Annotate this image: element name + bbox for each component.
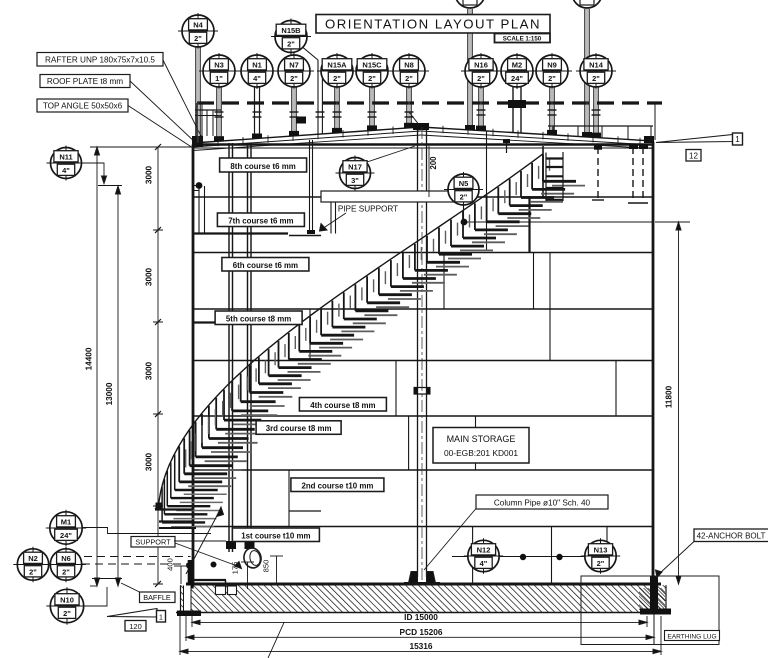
rafter chord left — [193, 135, 421, 151]
nozzle N8 2" — [389, 53, 429, 89]
dimension 11800 — [655, 222, 690, 584]
label 3rd course t8 mm — [256, 421, 341, 435]
svg-text:N15A: N15A — [327, 61, 347, 70]
svg-text:120: 120 — [129, 622, 142, 631]
label 1st course t10 mm — [232, 528, 319, 542]
dot on wall — [186, 562, 193, 569]
handrail post right — [654, 103, 656, 140]
svg-text:N9: N9 — [547, 61, 557, 70]
column base plates — [404, 572, 440, 584]
svg-text:2": 2" — [597, 559, 605, 568]
anchor bolt right assembly — [640, 576, 671, 645]
course boundary line 5/4 — [193, 360, 653, 362]
roof railing right — [548, 126, 653, 141]
nozzle pipe x=552 — [550, 87, 554, 135]
svg-text:2": 2" — [460, 193, 468, 202]
nozzle pipe x=481 — [479, 87, 483, 131]
internal dashed pipe 1 — [592, 145, 604, 200]
svg-text:N14: N14 — [589, 61, 604, 70]
stair treads — [162, 155, 585, 527]
shell plate seam — [475, 416, 477, 470]
svg-text:N3: N3 — [214, 61, 224, 70]
nozzle N6 2" — [46, 547, 85, 582]
stairway stringer — [159, 154, 543, 504]
stair top post — [542, 146, 544, 197]
dimension 13000 — [98, 186, 122, 587]
svg-text:7th course t6 mm: 7th course t6 mm — [228, 216, 293, 225]
N17 leader — [367, 146, 415, 162]
shell plate seam — [288, 470, 290, 527]
foundation ring wall — [176, 585, 670, 612]
course boundary line 2/1 — [193, 526, 653, 528]
svg-text:1: 1 — [735, 135, 740, 144]
nozzle pipe x=587 — [585, 9, 589, 137]
roof nozzle flanges — [214, 117, 601, 142]
nozzle pipe x=409 — [407, 87, 411, 128]
label EARTHING LUG — [665, 631, 720, 641]
bottom leader — [268, 623, 284, 658]
nozzle M2 24" — [497, 53, 537, 89]
dim 200 line — [428, 146, 430, 197]
label BAFFLE — [121, 583, 175, 603]
dimension 14400 — [85, 147, 194, 586]
svg-text:N4: N4 — [193, 21, 203, 30]
N6 dashed leader — [82, 563, 191, 565]
N8 pipe jog to peak — [409, 112, 420, 126]
svg-text:N8: N8 — [404, 61, 414, 70]
shell seam half line — [289, 510, 321, 512]
label RAFTER UNP 180x75x7x10.5 — [37, 53, 202, 139]
svg-text:PIPE SUPPORT: PIPE SUPPORT — [338, 205, 398, 214]
roof plate right slope — [421, 127, 653, 141]
internal ladder — [546, 152, 563, 201]
svg-text:N12: N12 — [477, 546, 491, 555]
dimension course line 3000s — [153, 144, 163, 587]
svg-text:200: 200 — [429, 156, 438, 170]
svg-text:42-ANCHOR BOLT: 42-ANCHOR BOLT — [697, 532, 766, 541]
svg-text:M1: M1 — [61, 518, 71, 527]
dimension ID 15000 — [192, 621, 647, 623]
svg-text:175: 175 — [231, 562, 240, 575]
N11 leader — [82, 163, 105, 182]
shell plate seam — [549, 253, 551, 361]
nozzle cut top 2 — [572, 0, 602, 8]
svg-text:1": 1" — [215, 74, 223, 83]
label SUPPORT — [131, 537, 242, 569]
nozzle N3 1" — [199, 53, 239, 89]
svg-text:2": 2" — [62, 568, 70, 577]
center column pipe — [414, 127, 431, 580]
svg-text:N15B: N15B — [281, 26, 301, 35]
svg-text:2": 2" — [29, 568, 37, 577]
label 4th course t8 mm — [299, 398, 386, 412]
stair support post — [528, 196, 530, 253]
shell plate seam — [606, 527, 608, 557]
svg-text:24": 24" — [511, 74, 523, 83]
svg-text:M2: M2 — [512, 61, 522, 70]
svg-text:N10: N10 — [60, 596, 74, 605]
N10 leader — [84, 587, 108, 606]
nozzle N15B 2" — [271, 19, 311, 55]
nozzle line N12 N13 — [452, 556, 585, 558]
svg-text:6th course t6 mm: 6th course t6 mm — [233, 261, 298, 270]
svg-text:ROOF PLATE t8 mm: ROOF PLATE t8 mm — [47, 77, 123, 86]
svg-text:2": 2" — [477, 74, 485, 83]
svg-text:13000: 13000 — [105, 382, 114, 405]
course boundary line 4/3 — [193, 415, 653, 417]
extension lines bottom — [180, 614, 661, 655]
N5 stem — [463, 205, 465, 219]
left eave cluster — [192, 110, 221, 147]
nozzle N12 4" — [464, 538, 503, 573]
svg-text:N16: N16 — [474, 61, 488, 70]
section flag 1 bottom left — [107, 609, 166, 623]
nozzle N5 2" — [444, 172, 483, 207]
internal pipe stub C — [307, 140, 315, 234]
nozzle N2 2" — [13, 547, 52, 582]
nozzle pipe x=596 — [594, 87, 598, 138]
dimension PCD 15206 — [186, 636, 654, 638]
nozzle N11 4" — [47, 146, 86, 181]
svg-text:3": 3" — [351, 176, 359, 185]
svg-text:EARTHING LUG: EARTHING LUG — [667, 634, 716, 641]
svg-text:2": 2" — [405, 74, 413, 83]
svg-text:RAFTER UNP 180x75x7x10.5: RAFTER UNP 180x75x7x10.5 — [45, 56, 155, 65]
pipe support posts — [331, 202, 336, 234]
shim plates — [216, 586, 237, 595]
svg-text:BAFFLE: BAFFLE — [143, 593, 171, 602]
label ROOF PLATE t8 mm — [40, 75, 197, 145]
nozzle N17 3" — [336, 156, 375, 191]
svg-text:24": 24" — [60, 531, 72, 540]
top angle ring — [193, 143, 653, 146]
tank left wall — [192, 145, 195, 585]
internal pipe pair A — [226, 143, 236, 552]
label 42-ANCHOR BOLT — [656, 529, 768, 578]
section flag 1 top right — [656, 133, 743, 145]
label 2nd course t10 mm — [291, 478, 384, 492]
nozzle pipe x=372 — [370, 87, 374, 130]
shell plate seam — [533, 253, 535, 310]
course boundary line 6/5 — [193, 308, 653, 310]
svg-text:2": 2" — [290, 74, 298, 83]
label 6th course t6 mm — [222, 258, 309, 272]
ground tick — [92, 578, 122, 580]
nozzle N7 2" — [274, 53, 314, 89]
svg-text:4": 4" — [62, 166, 70, 175]
overflow tick and dot — [193, 182, 202, 189]
svg-text:N7: N7 — [289, 61, 299, 70]
roof peak cap — [413, 123, 429, 130]
svg-text:2": 2" — [287, 40, 295, 49]
right pedestal dense hatch — [639, 588, 665, 610]
nozzle N15A 2" — [317, 53, 357, 89]
course boundary line 8/7 — [193, 196, 653, 198]
svg-text:SCALE 1:150: SCALE 1:150 — [503, 36, 542, 43]
shell plate seam — [408, 416, 410, 470]
detail box 120 — [125, 621, 146, 632]
nozzle N1 4" — [237, 53, 277, 89]
svg-text:850: 850 — [262, 560, 271, 573]
manhole M2 neck — [508, 87, 526, 133]
svg-text:MAIN STORAGE: MAIN STORAGE — [447, 434, 516, 444]
label 7th course t6 mm — [217, 213, 304, 227]
roof platform handrail dashed — [197, 101, 662, 104]
dot near support — [211, 562, 217, 568]
pipe support plan rect — [321, 191, 463, 202]
svg-text:12: 12 — [689, 152, 698, 161]
internal stub at 506 — [503, 139, 510, 153]
svg-text:3000: 3000 — [145, 452, 154, 471]
nozzle N14 2" — [576, 53, 616, 89]
svg-text:N1: N1 — [252, 61, 262, 70]
internal dashed pipe pair 2 — [628, 144, 648, 203]
left wall anchor bolt — [188, 560, 194, 589]
nozzle pipe N1 double — [255, 87, 260, 139]
nozzle cut top 1 — [455, 0, 485, 8]
svg-text:4": 4" — [253, 74, 261, 83]
dimension 15316 — [180, 650, 661, 652]
shell plate seam — [395, 361, 397, 417]
anchor detail box — [581, 576, 719, 645]
svg-text:3000: 3000 — [145, 165, 154, 184]
tank bottom plate — [186, 583, 661, 586]
dim 175 — [231, 562, 255, 589]
level dot N5 — [461, 219, 468, 226]
internal pipe pair B — [245, 143, 255, 552]
svg-text:4th course t8 mm: 4th course t8 mm — [310, 401, 375, 410]
dim 400 — [166, 558, 189, 584]
shell plate seam — [615, 361, 617, 417]
rafter right — [421, 131, 653, 145]
svg-text:2": 2" — [548, 74, 556, 83]
label 8th course t6 mm — [220, 158, 307, 172]
svg-text:4": 4" — [480, 559, 488, 568]
nozzle pipe x=294 — [292, 87, 296, 136]
right eave cluster — [644, 136, 654, 143]
stair bottom landing — [155, 510, 196, 529]
label 5th course t8 mm — [215, 311, 302, 325]
svg-text:N17: N17 — [348, 163, 362, 172]
nozzle N4 2" — [178, 13, 218, 49]
svg-text:N13: N13 — [594, 546, 608, 555]
pipe support beam lower — [193, 321, 265, 323]
manhole ellipse — [242, 546, 263, 569]
svg-text:ORIENTATION LAYOUT PLAN: ORIENTATION LAYOUT PLAN — [325, 17, 541, 32]
svg-text:11800: 11800 — [665, 385, 674, 408]
course boundary line 3/2 — [193, 469, 653, 471]
svg-text:2": 2" — [333, 74, 341, 83]
nozzle N13 2" — [581, 538, 620, 573]
N2 dashed leader — [84, 556, 191, 558]
top curb line — [193, 147, 653, 149]
pipe support beam upper — [193, 232, 288, 234]
PIPE SUPPORT label — [289, 205, 398, 236]
course boundary line 7/6 — [193, 252, 653, 254]
nozzle N10 2" — [46, 587, 87, 624]
svg-text:ID 15000: ID 15000 — [404, 612, 438, 622]
svg-text:N15C: N15C — [362, 61, 382, 70]
svg-text:N2: N2 — [28, 554, 38, 563]
svg-text:5th course t8 mm: 5th course t8 mm — [226, 314, 291, 323]
label TOP ANGLE 50x50x6 — [37, 99, 193, 148]
handrail post left — [196, 103, 198, 143]
roof plate joints — [217, 139, 219, 147]
liquid level line 11800 — [464, 221, 653, 223]
rafter chord right — [421, 135, 653, 149]
nozzle pipe x=470 — [468, 9, 472, 130]
shell plate seam — [309, 309, 311, 361]
svg-text:8th course t6 mm: 8th course t6 mm — [230, 162, 295, 171]
shell plate seam — [443, 253, 445, 310]
nozzle pipe N15B bend — [300, 45, 322, 134]
svg-text:3rd course t8 mm: 3rd course t8 mm — [266, 424, 332, 433]
baffle plate — [193, 580, 226, 588]
svg-text:2": 2" — [368, 74, 376, 83]
misc arrow bottom left — [186, 507, 224, 574]
nozzle pipe x=198 — [196, 47, 200, 143]
internal pipe stub D — [486, 131, 488, 250]
anchor bolt left — [177, 611, 201, 617]
detail box 12 — [686, 150, 701, 162]
svg-text:15316: 15316 — [409, 641, 432, 651]
svg-text:3000: 3000 — [145, 267, 154, 286]
svg-text:N11: N11 — [59, 153, 72, 162]
nozzle N15C 2" — [352, 53, 392, 89]
svg-text:TOP ANGLE 50x50x6: TOP ANGLE 50x50x6 — [43, 102, 123, 111]
svg-text:2": 2" — [592, 74, 600, 83]
M1 leader — [83, 528, 212, 534]
nozzle N16 2" — [461, 53, 501, 89]
svg-text:2nd course t10 mm: 2nd course t10 mm — [301, 481, 373, 490]
svg-text:PCD 15206: PCD 15206 — [400, 627, 443, 637]
label MAIN STORAGE 00-EGB:201 KD001 — [433, 428, 529, 464]
tank right wall — [652, 142, 655, 585]
svg-text:00-EGB:201 KD001: 00-EGB:201 KD001 — [444, 448, 518, 458]
svg-text:2": 2" — [63, 609, 71, 618]
svg-text:N5: N5 — [459, 179, 469, 188]
svg-text:2": 2" — [194, 34, 202, 43]
stair base blob — [156, 503, 162, 510]
svg-text:Column Pipe ø10" Sch. 40: Column Pipe ø10" Sch. 40 — [494, 499, 591, 508]
dim 850 — [262, 556, 284, 584]
nozzle N9 2" — [532, 53, 572, 89]
nozzle pipe x=219 — [217, 87, 221, 141]
nozzle M1 24" — [46, 510, 86, 546]
left wall pedestal clear strip — [184, 586, 192, 613]
svg-text:14400: 14400 — [85, 347, 94, 370]
svg-text:1: 1 — [159, 613, 163, 622]
svg-text:1st course t10 mm: 1st course t10 mm — [241, 531, 310, 540]
roof plate left slope — [193, 127, 421, 143]
svg-text:SUPPORT: SUPPORT — [135, 538, 171, 547]
label Column Pipe 10in Sch 40 — [424, 495, 608, 570]
rafter left — [193, 131, 421, 147]
svg-text:3000: 3000 — [145, 361, 154, 380]
svg-text:400: 400 — [166, 558, 175, 571]
overflow pipe — [193, 186, 205, 234]
nozzle pipe x=337 — [335, 87, 339, 133]
pipe flange ticks — [215, 110, 601, 117]
shell plate seam — [472, 527, 474, 585]
shell plate seam — [551, 527, 553, 585]
title ORIENTATION LAYOUT PLAN — [316, 15, 550, 43]
svg-text:N6: N6 — [61, 554, 71, 563]
